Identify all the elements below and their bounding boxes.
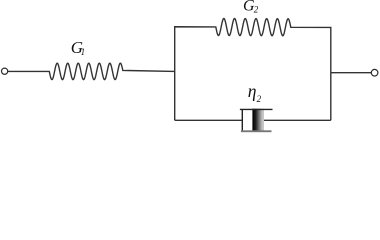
svg-text:2: 2 [254,5,259,15]
svg-text:1: 1 [81,47,86,57]
svg-text:η: η [248,81,257,101]
svg-text:2: 2 [257,94,262,104]
